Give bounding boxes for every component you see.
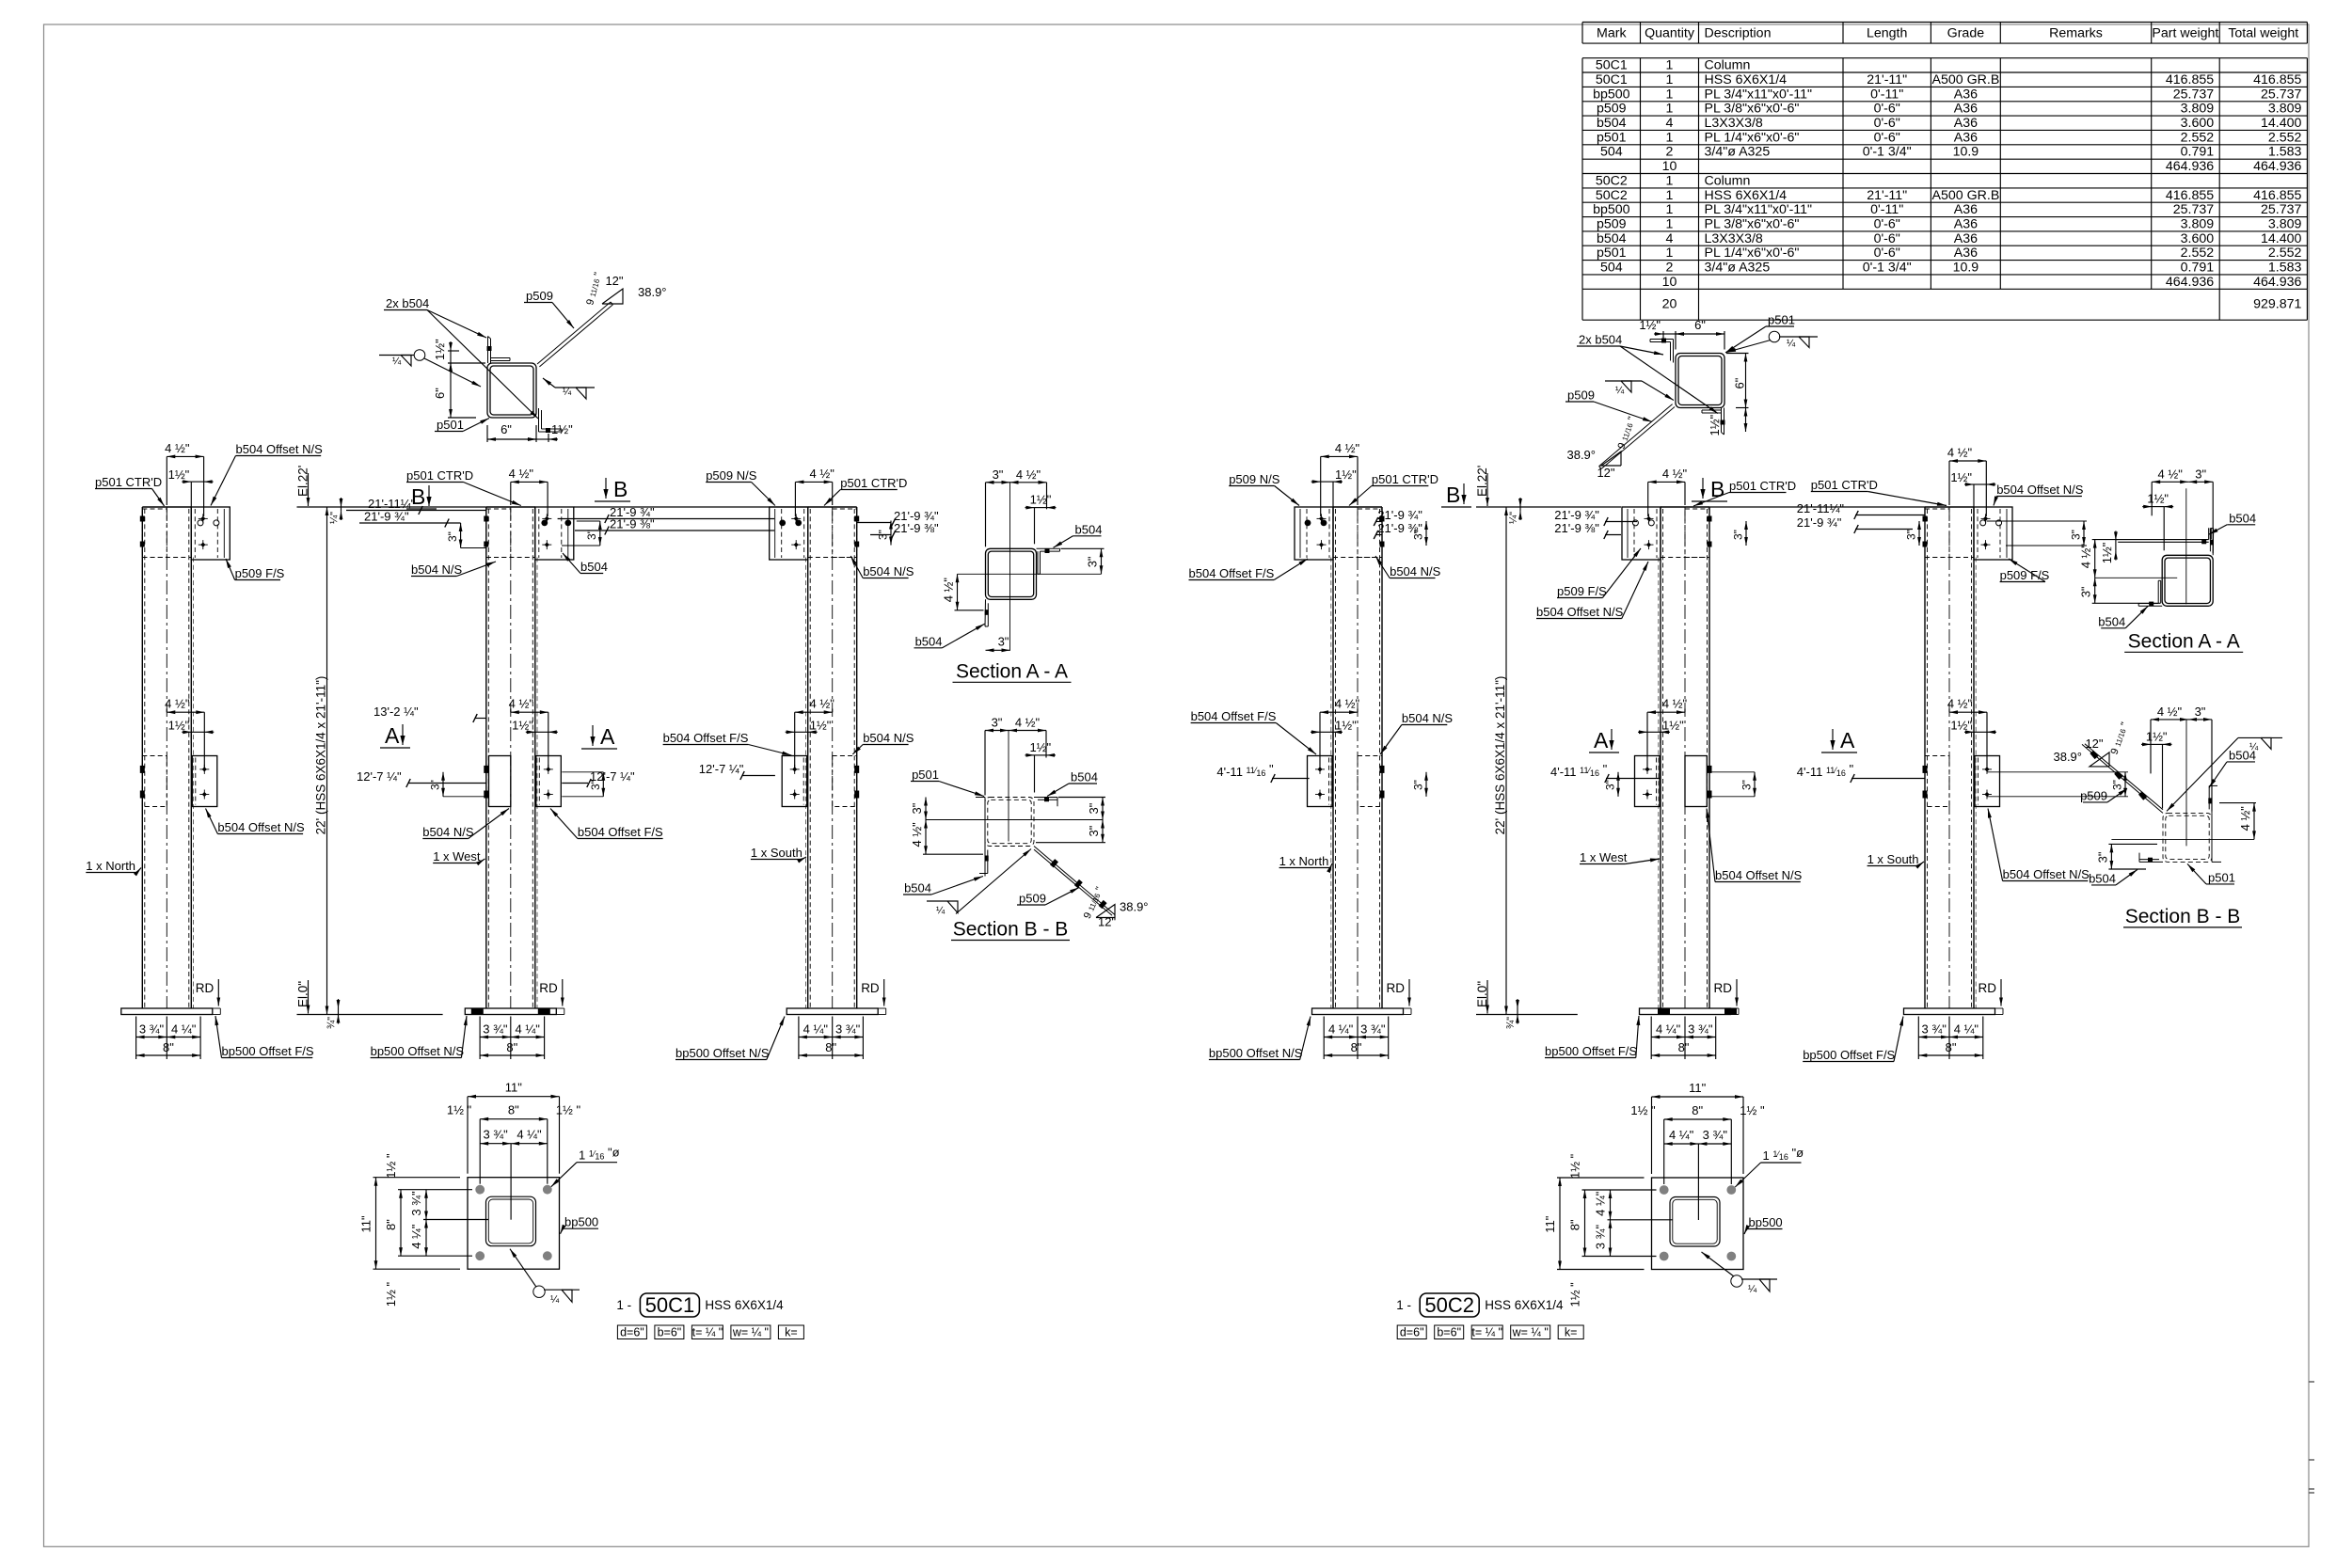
50C1 Section B-B - dims 3 inch right bbox=[1036, 798, 1105, 843]
column 50C2 north elevation - label b504 N/S bbox=[1375, 556, 1441, 578]
column 50C1 south elevation - mid dim 4 1/2 inch bbox=[795, 697, 835, 768]
svg-text:1½": 1½" bbox=[1639, 318, 1661, 332]
mid dim 3 inch (50C1 west right) bbox=[562, 772, 605, 797]
column 50C1 south elevation - bp500 base plate bbox=[787, 1008, 886, 1015]
svg-text:4 ½": 4 ½" bbox=[1947, 697, 1973, 711]
50C1 Section B-B - dims 3 and 4 1/2 inch top bbox=[985, 716, 1056, 796]
svg-text:A36: A36 bbox=[1954, 130, 1978, 145]
50C1 plan detail - dim 6 inch vertical bbox=[433, 339, 485, 418]
svg-text:¼": ¼" bbox=[1508, 512, 1519, 524]
svg-text:21'-11": 21'-11" bbox=[1867, 72, 1907, 87]
50C1 Section A-A - title bbox=[953, 660, 1072, 682]
column 50C2 west elevation - label 1 x West bbox=[1580, 850, 1660, 864]
50C1 bp500 plan - label 1 1/16 dia bolt hole bbox=[551, 1146, 620, 1187]
svg-text:p509: p509 bbox=[1567, 388, 1595, 403]
svg-text:8": 8" bbox=[1351, 1040, 1362, 1054]
50C1 Section B-B - HSS square (hidden behind p501) bbox=[985, 798, 1034, 847]
svg-text:A36: A36 bbox=[1954, 116, 1978, 131]
50C1 Section B-B - dim 4 1/2 inch left bbox=[925, 820, 927, 855]
50C1 Section A-A - dim 1 1/2 inch top bbox=[1035, 507, 1047, 509]
50C2 plan detail - slope triangle 38.9 deg bbox=[1566, 415, 1638, 480]
svg-text:3.600: 3.600 bbox=[2181, 116, 2215, 131]
svg-text:2: 2 bbox=[1666, 145, 1674, 160]
svg-text:RD: RD bbox=[1979, 981, 1997, 995]
svg-text:3 ¾": 3 ¾" bbox=[1594, 1225, 1608, 1250]
50C2 Section A-A - dim 3 inch side bbox=[2079, 578, 2161, 603]
section cut mark B-B right (50C1) bbox=[595, 477, 630, 501]
svg-text:¼: ¼ bbox=[550, 1294, 560, 1306]
svg-text:b504 Offset F/S: b504 Offset F/S bbox=[1189, 566, 1275, 580]
svg-text:Mark: Mark bbox=[1597, 26, 1627, 41]
svg-text:bp500: bp500 bbox=[564, 1215, 598, 1229]
50C1 Section B-B - label b504 bottom bbox=[903, 877, 983, 895]
50C1 Section B-B - title bbox=[951, 919, 1070, 941]
svg-text:21'-9 ¾": 21'-9 ¾" bbox=[364, 510, 409, 524]
svg-text:p509: p509 bbox=[526, 289, 553, 303]
50C2 Section B-B - label p501 bbox=[2187, 863, 2235, 884]
svg-text:A500 GR.B: A500 GR.B bbox=[1932, 72, 2000, 87]
svg-text:p509 F/S: p509 F/S bbox=[235, 566, 285, 580]
svg-text:b504: b504 bbox=[915, 634, 943, 648]
column 50C2 north elevation - label p501 CTR'D bbox=[1349, 472, 1438, 506]
50C2 plan detail - dim 6 inch horizontal bbox=[1639, 318, 1724, 350]
elevation dim 21'-9 3/8 inch (50C2 north right) bbox=[1374, 521, 1422, 539]
svg-text:p501 CTR'D: p501 CTR'D bbox=[1811, 478, 1878, 492]
svg-text:p501: p501 bbox=[912, 768, 939, 782]
50C2 bp500 plan - dim 11 inch top bbox=[1630, 1081, 1765, 1220]
svg-text:2.552: 2.552 bbox=[2268, 130, 2302, 145]
svg-text:464.936: 464.936 bbox=[2253, 275, 2301, 290]
svg-text:1½": 1½" bbox=[168, 718, 190, 732]
column 50C2 south elevation - mid dim 1 1/2 inch bbox=[1950, 718, 1996, 743]
elevation dim 21'-9 3/8 inch (50C1 south right) bbox=[870, 521, 939, 539]
column 50C2 west elevation - p501/p509/b504 top connection plate bbox=[1622, 507, 1712, 560]
svg-text:A36: A36 bbox=[1954, 231, 1978, 246]
50C2 plan detail - weld symbol 1/4 with circle (right) bbox=[1726, 331, 1818, 352]
svg-text:p501 CTR'D: p501 CTR'D bbox=[840, 476, 907, 490]
svg-text:4 ½": 4 ½" bbox=[1016, 467, 1041, 482]
column 50C2 west elevation - mid dim 4 1/2 inch bbox=[1647, 697, 1688, 768]
svg-text:3": 3" bbox=[1740, 780, 1754, 790]
svg-text:4 ½": 4 ½" bbox=[810, 697, 835, 711]
svg-text:3.809: 3.809 bbox=[2181, 217, 2215, 232]
svg-text:1.583: 1.583 bbox=[2268, 261, 2302, 276]
svg-text:b504: b504 bbox=[580, 560, 608, 574]
svg-text:p509: p509 bbox=[1597, 217, 1627, 232]
svg-text:464.936: 464.936 bbox=[2253, 159, 2301, 174]
svg-text:4 ½": 4 ½" bbox=[1662, 697, 1688, 711]
50C2 Section B-B - label b504 bottom bbox=[2089, 869, 2137, 885]
column 50C1 north elevation - mid dim 4 1/2 inch bbox=[165, 697, 204, 768]
bill of materials table bbox=[1582, 23, 2307, 321]
svg-text:b504 N/S: b504 N/S bbox=[863, 731, 914, 745]
svg-text:14.400: 14.400 bbox=[2261, 116, 2302, 131]
column 50C2 south elevation - label p501 CTR'D bbox=[1811, 478, 1947, 506]
svg-text:0'-6": 0'-6" bbox=[1874, 130, 1900, 145]
50C1 bp500 plan - dims 3 3/4 and 4 1/4 left bbox=[425, 1190, 427, 1220]
svg-text:RD: RD bbox=[1387, 981, 1406, 995]
column 50C1 south elevation - label b504 N/S bbox=[850, 556, 914, 578]
50C2 plan detail - angle b504 at corner (vertical leg) bbox=[1702, 408, 1725, 436]
svg-text:¾": ¾" bbox=[326, 1017, 338, 1029]
svg-text:11": 11" bbox=[1689, 1081, 1706, 1095]
column 50C1 west elevation - label b504 N/S bbox=[422, 809, 509, 840]
column 50C2 north elevation - bp500 base plate bbox=[1312, 1008, 1412, 1015]
50C2 Section B-B - label b504 top bbox=[2209, 748, 2256, 787]
column 50C2 west elevation - label p509 F/S bbox=[1557, 548, 1641, 598]
svg-text:3 ¾": 3 ¾" bbox=[483, 1022, 508, 1037]
50C1 bp500 plan - dim 11 inch top bbox=[447, 1081, 581, 1220]
svg-text:3": 3" bbox=[1087, 825, 1101, 836]
elevation dim 21'-9 3/8 inch (between 50C1 west-south) bbox=[575, 517, 774, 535]
column 50C2 west elevation - HSS 6X6X1/4 body bbox=[1659, 507, 1709, 1008]
svg-text:1: 1 bbox=[1666, 245, 1674, 261]
section cut mark A-A left (50C2) bbox=[1589, 728, 1619, 752]
50C2 Section A-A - HSS square bbox=[2162, 555, 2213, 606]
svg-text:10: 10 bbox=[1662, 159, 1677, 174]
svg-text:1½": 1½" bbox=[1950, 470, 1972, 484]
50C1 Section A-A - angle b504 top bbox=[1037, 548, 1060, 574]
50C1 Section B-B - label p501 bbox=[911, 768, 984, 797]
column 50C1 south elevation - label bp500 Offset N/S bbox=[675, 1017, 785, 1061]
mid elevation dim 13'-2 1/4 inch (50C1 west) bbox=[373, 705, 486, 722]
svg-text:b504 N/S: b504 N/S bbox=[1402, 711, 1454, 725]
50C2 bp500 plan - label 1 1/16 dia bolt hole bbox=[1735, 1146, 1804, 1187]
svg-text:4 ½": 4 ½" bbox=[1662, 467, 1688, 481]
svg-text:¼: ¼ bbox=[936, 906, 946, 917]
svg-text:1½": 1½" bbox=[1029, 740, 1051, 754]
column 50C1 north elevation - b504 mid connection plate bbox=[140, 756, 217, 807]
svg-text:1½": 1½" bbox=[1950, 718, 1972, 732]
svg-text:A: A bbox=[385, 723, 400, 748]
svg-text:4 ½": 4 ½" bbox=[810, 467, 835, 481]
svg-text:4 ½": 4 ½" bbox=[2079, 544, 2093, 569]
svg-text:b504: b504 bbox=[2089, 871, 2116, 885]
svg-text:4 ½": 4 ½" bbox=[509, 467, 534, 481]
50C1 plan detail - label p501 bbox=[435, 418, 489, 432]
svg-text:21'-9 ⅜": 21'-9 ⅜" bbox=[894, 521, 939, 535]
svg-text:3": 3" bbox=[2195, 705, 2206, 719]
svg-text:Section A - A: Section A - A bbox=[956, 660, 1068, 682]
svg-text:HSS 6X6X1/4: HSS 6X6X1/4 bbox=[1485, 1298, 1564, 1312]
column 50C2 south elevation - RD mark bbox=[1979, 979, 2003, 1006]
column 50C1 west elevation - label b504 N/S bbox=[411, 562, 496, 577]
section cut mark B-B right (50C2) bbox=[1692, 477, 1727, 501]
svg-text:t= ¼ ": t= ¼ " bbox=[692, 1326, 723, 1339]
svg-text:14.400: 14.400 bbox=[2261, 231, 2302, 246]
svg-text:25.737: 25.737 bbox=[2261, 202, 2302, 217]
50C2 Section A-A - angle b504 top bbox=[2138, 580, 2162, 606]
svg-text:50C1: 50C1 bbox=[1596, 58, 1628, 73]
svg-text:b504: b504 bbox=[1071, 770, 1098, 784]
svg-text:1: 1 bbox=[1666, 72, 1674, 87]
svg-text:b504 Offset N/S: b504 Offset N/S bbox=[1715, 868, 1803, 882]
column 50C2 north elevation - top dim 1 1/2 inch bbox=[1311, 467, 1357, 507]
svg-text:3": 3" bbox=[2111, 780, 2124, 790]
svg-text:3": 3" bbox=[877, 530, 890, 540]
50C1 Section B-B - label b504 top bbox=[1047, 770, 1098, 797]
column 50C1 north elevation - HSS 6X6X1/4 body bbox=[142, 507, 193, 1008]
svg-text:PL 3/4"x11"x0'-11": PL 3/4"x11"x0'-11" bbox=[1705, 87, 1813, 102]
svg-text:A36: A36 bbox=[1954, 245, 1978, 261]
50C1 plan detail - angle b504 at corner (vertical leg) bbox=[487, 337, 511, 364]
mid elevation dim 4'-11 11/16 inch (50C2 west) bbox=[1550, 762, 1661, 783]
column 50C2 south elevation - p501/p509/b504 top connection plate bbox=[1923, 507, 2013, 560]
50C1 bp500 plan - label bp500 bbox=[561, 1215, 599, 1234]
svg-text:1 -: 1 - bbox=[1396, 1298, 1411, 1312]
svg-text:25.737: 25.737 bbox=[2173, 87, 2215, 102]
svg-text:d=6": d=6" bbox=[620, 1326, 644, 1339]
svg-text:4'-11 11⁄16 ": 4'-11 11⁄16 " bbox=[1216, 762, 1274, 779]
svg-text:bp500 Offset F/S: bp500 Offset F/S bbox=[222, 1044, 314, 1058]
svg-text:RD: RD bbox=[1714, 981, 1733, 995]
svg-text:w= ¼ ": w= ¼ " bbox=[1512, 1326, 1549, 1339]
50C2 bp500 plan - anchor bolt holes bbox=[1660, 1185, 1736, 1260]
column 50C1 west elevation - b504 mid connection plate bbox=[484, 756, 561, 807]
mid dim 3 inch (50C2 west left) bbox=[1604, 772, 1620, 797]
svg-text:p509 F/S: p509 F/S bbox=[1557, 584, 1607, 598]
svg-text:bp500 Offset F/S: bp500 Offset F/S bbox=[1803, 1048, 1895, 1062]
section cut mark A-A right (50C1) bbox=[581, 724, 617, 749]
50C1 grid line El.22' bbox=[296, 466, 808, 507]
column 50C2 west elevation - label b504 Offset N/S bbox=[1706, 809, 1802, 883]
svg-text:3": 3" bbox=[1412, 530, 1425, 540]
svg-text:bp500 Offset N/S: bp500 Offset N/S bbox=[675, 1046, 770, 1060]
50C2 bp500 plan - weld symbol 1/4 below bbox=[1702, 1252, 1778, 1295]
svg-text:11": 11" bbox=[505, 1081, 522, 1095]
svg-text:b504 Offset N/S: b504 Offset N/S bbox=[1996, 483, 2084, 497]
svg-text:HSS 6X6X1/4: HSS 6X6X1/4 bbox=[1705, 72, 1788, 87]
column 50C1 west elevation - p501/p509/b504 top connection plate bbox=[484, 507, 574, 560]
mid dim 3 inch (50C2 south right) bbox=[1987, 772, 2128, 797]
svg-text:1½ ": 1½ " bbox=[384, 1282, 398, 1307]
svg-text:21'-11¼": 21'-11¼" bbox=[1797, 501, 1845, 515]
50C1 plan detail - slope triangle 38.9 deg bbox=[584, 271, 666, 307]
svg-text:2.552: 2.552 bbox=[2181, 130, 2215, 145]
column 50C2 south elevation - label bp500 Offset F/S bbox=[1803, 1017, 1903, 1063]
svg-text:3.809: 3.809 bbox=[2268, 102, 2302, 117]
svg-text:A: A bbox=[600, 724, 615, 749]
elevation dim 21'-9 3/4 inch (50C1 west) bbox=[359, 510, 461, 528]
column 50C2 south elevation - label p509 F/S bbox=[2000, 559, 2050, 582]
50C2 Section B-B - weld leader 1/4 bbox=[2167, 737, 2282, 811]
50C2 plan detail - dim 6 inch vertical bbox=[1708, 354, 1749, 436]
svg-text:464.936: 464.936 bbox=[2166, 159, 2214, 174]
50C1 bp500 plan - dim 8 inch left bbox=[400, 1190, 402, 1257]
50C1 Section A-A - label b504 (first) bbox=[1054, 522, 1103, 547]
svg-text:21'-9 ⅜": 21'-9 ⅜" bbox=[1554, 521, 1599, 535]
svg-text:1½": 1½" bbox=[1662, 718, 1684, 732]
svg-text:3 ¾": 3 ¾" bbox=[409, 1191, 423, 1216]
svg-text:4 ½": 4 ½" bbox=[910, 822, 924, 847]
50C2 plan detail - label p501 bbox=[1725, 313, 1795, 354]
svg-text:1½": 1½" bbox=[433, 339, 447, 360]
svg-text:3": 3" bbox=[446, 531, 459, 542]
svg-text:10.9: 10.9 bbox=[1953, 261, 1979, 276]
svg-text:1: 1 bbox=[1666, 173, 1674, 188]
svg-text:1½": 1½" bbox=[2147, 492, 2169, 506]
svg-text:416.855: 416.855 bbox=[2253, 188, 2301, 203]
svg-text:t= ¼ ": t= ¼ " bbox=[1471, 1326, 1502, 1339]
svg-text:3": 3" bbox=[2195, 467, 2206, 481]
column 50C1 south elevation - label p501 CTR'D bbox=[824, 476, 907, 506]
svg-text:3": 3" bbox=[1732, 530, 1745, 540]
mid elevation dim 4'-11 11/16 inch (50C2 south) bbox=[1797, 762, 1925, 783]
50C2 plan detail - angle b504 at opposite corner bbox=[1650, 339, 1674, 363]
svg-text:3": 3" bbox=[589, 780, 602, 790]
column 50C1 west elevation - RD mark bbox=[539, 979, 564, 1006]
mid elevation dim 4'-11 11/16 inch (50C2 north) bbox=[1216, 762, 1309, 783]
column 50C2 south elevation - mid dim 4 1/2 inch bbox=[1947, 697, 1987, 768]
svg-text:8": 8" bbox=[163, 1040, 174, 1054]
50C1 plan detail - angle b504 at opposite corner bbox=[539, 408, 563, 433]
svg-text:3": 3" bbox=[1905, 530, 1918, 540]
svg-text:1½": 1½" bbox=[168, 467, 190, 482]
svg-text:0'-6": 0'-6" bbox=[1874, 245, 1900, 261]
column 50C1 south elevation - label b504 N/S bbox=[852, 731, 914, 754]
svg-text:0'-1 3/4": 0'-1 3/4" bbox=[1863, 261, 1912, 276]
column 50C1 south elevation - label p509 N/S bbox=[706, 468, 775, 506]
svg-text:929.871: 929.871 bbox=[2253, 296, 2301, 311]
50C2 Section A-A - cut centerlines bbox=[2095, 488, 2186, 604]
svg-text:3": 3" bbox=[910, 802, 924, 814]
svg-text:A: A bbox=[1840, 728, 1855, 752]
svg-text:50C1: 50C1 bbox=[645, 1293, 695, 1317]
svg-text:PL 3/4"x11"x0'-11": PL 3/4"x11"x0'-11" bbox=[1705, 202, 1813, 217]
svg-text:8": 8" bbox=[1678, 1040, 1690, 1054]
50C1 plan detail - dim 6 inch horizontal bbox=[487, 422, 573, 442]
50C2 Section B-B - dims 3 and 4 1/2 inch top bbox=[2141, 705, 2212, 812]
column 50C2 west elevation - label b504 Offset N/S bbox=[1536, 562, 1648, 619]
50C2 Section B-B - HSS square (hidden behind p501) bbox=[2163, 813, 2212, 862]
50C1 Section A-A - dim 4 1/2 inch side bbox=[942, 574, 984, 610]
50C2 bp500 plan - dims 3 3/4 and 4 1/4 left bbox=[1610, 1190, 1612, 1220]
svg-text:1 x North: 1 x North bbox=[86, 859, 135, 873]
50C1 Section B-B - centerlines bbox=[926, 730, 1103, 842]
svg-text:p509 N/S: p509 N/S bbox=[1229, 472, 1280, 486]
50C2 grid line El.0" bbox=[1475, 980, 1578, 1015]
svg-text:1: 1 bbox=[1666, 217, 1674, 232]
50C2 Section B-B - slope triangle 38.9 deg bbox=[2053, 721, 2131, 767]
column 50C1 north elevation - top dim 4 1/2 inch bbox=[165, 441, 203, 516]
svg-text:4 ½": 4 ½" bbox=[509, 697, 534, 711]
50C2 Section B-B - dim 1 1/2 inch top bbox=[2151, 743, 2163, 745]
svg-text:k=: k= bbox=[785, 1326, 798, 1339]
svg-text:4 ¼": 4 ¼" bbox=[1328, 1022, 1354, 1037]
50C1 plan detail - HSS 6X6X1/4 section bbox=[487, 363, 536, 418]
svg-text:p509 N/S: p509 N/S bbox=[706, 468, 757, 483]
svg-text:bp500 Offset N/S: bp500 Offset N/S bbox=[1209, 1046, 1303, 1060]
svg-text:1½": 1½" bbox=[1708, 414, 1722, 436]
svg-text:B: B bbox=[613, 477, 628, 501]
svg-text:50C2: 50C2 bbox=[1596, 173, 1628, 188]
section cut mark B-B left (50C2) bbox=[1441, 483, 1471, 507]
svg-text:0'-6": 0'-6" bbox=[1874, 217, 1900, 232]
svg-text:3": 3" bbox=[998, 634, 1009, 648]
50C1 grid line El.0" bbox=[296, 980, 443, 1015]
svg-text:4: 4 bbox=[1666, 231, 1674, 246]
column 50C1 north elevation - label 1 x North bbox=[86, 859, 141, 876]
50C1 Section B-B - weld leader 1/4 bbox=[927, 849, 1031, 917]
svg-text:b504 Offset F/S: b504 Offset F/S bbox=[1191, 709, 1277, 723]
column 50C2 south elevation - top dim 1 1/2 inch bbox=[1950, 470, 1995, 507]
column 50C2 north elevation - mid dim 4 1/2 inch bbox=[1320, 697, 1360, 768]
svg-text:L3X3X3/8: L3X3X3/8 bbox=[1705, 116, 1763, 131]
svg-text:1½": 1½" bbox=[551, 422, 573, 436]
50C1 Section A-A - dims 3 inch and 4 1/2 inch top bbox=[986, 467, 1057, 547]
svg-text:4 ½": 4 ½" bbox=[1947, 446, 1973, 460]
svg-text:1½": 1½" bbox=[512, 718, 533, 732]
svg-text:50C2: 50C2 bbox=[1596, 188, 1628, 203]
column 50C1 west elevation - bp500 base plate bbox=[465, 1008, 564, 1016]
svg-text:bp500: bp500 bbox=[1749, 1215, 1783, 1229]
svg-text:22' (HSS 6X6X1/4 x 21'-11"): 22' (HSS 6X6X1/4 x 21'-11") bbox=[1493, 676, 1507, 835]
svg-text:6": 6" bbox=[1694, 318, 1706, 332]
column 50C1 west elevation - label b504 bbox=[563, 553, 608, 574]
svg-text:8": 8" bbox=[1692, 1103, 1703, 1117]
column 50C1 north elevation - label p501 CTR'D bbox=[95, 475, 165, 506]
svg-text:1½": 1½" bbox=[2146, 729, 2168, 743]
svg-text:PL 3/8"x6"x0'-6": PL 3/8"x6"x0'-6" bbox=[1705, 217, 1800, 232]
svg-text:Description: Description bbox=[1705, 26, 1772, 41]
50C1 bp500 plan - HSS column section bbox=[486, 1196, 536, 1246]
column 50C1 west elevation - mid dim 4 1/2 inch bbox=[509, 697, 548, 768]
svg-text:2x b504: 2x b504 bbox=[1579, 333, 1622, 347]
svg-text:A: A bbox=[1594, 728, 1609, 752]
svg-text:3.809: 3.809 bbox=[2268, 217, 2302, 232]
50C2 Section A-A - angle b504 bottom bbox=[2210, 529, 2214, 556]
50C1 Section A-A - HSS square bbox=[986, 548, 1037, 599]
svg-text:p501: p501 bbox=[1597, 245, 1627, 261]
mid dim 3 inch (50C1 west left) bbox=[429, 772, 486, 797]
svg-text:0.791: 0.791 bbox=[2181, 261, 2215, 276]
svg-text:1: 1 bbox=[1666, 130, 1674, 145]
50C1 Section B-B - slope triangle 38.9 deg bbox=[1082, 885, 1149, 928]
column 50C1 south elevation - mid dim 1 1/2 inch bbox=[786, 718, 832, 743]
svg-text:b504: b504 bbox=[1597, 116, 1627, 131]
svg-text:A36: A36 bbox=[1954, 102, 1978, 117]
svg-text:0'-11": 0'-11" bbox=[1870, 87, 1903, 102]
column 50C2 south elevation - b504 mid connection plate bbox=[1923, 756, 2000, 807]
svg-text:bp500 Offset F/S: bp500 Offset F/S bbox=[1545, 1044, 1637, 1058]
svg-text:w= ¼ ": w= ¼ " bbox=[732, 1326, 769, 1339]
svg-text:b504: b504 bbox=[2098, 614, 2125, 628]
top dim 3 inch (50C1 west right) bbox=[562, 521, 602, 546]
svg-text:1 x West: 1 x West bbox=[433, 849, 481, 863]
section cut mark B-B left (50C1) bbox=[406, 484, 437, 509]
svg-text:2x b504: 2x b504 bbox=[386, 296, 429, 310]
svg-text:3 ¾": 3 ¾" bbox=[1360, 1022, 1386, 1037]
50C2 Section B-B - title bbox=[2123, 906, 2242, 927]
svg-text:0'-1 3/4": 0'-1 3/4" bbox=[1863, 145, 1912, 160]
elevation dim 21'-9 3/4 inch (between 50C1 west-south) bbox=[558, 505, 775, 523]
50C1 Section A-A - cut centerlines bbox=[958, 482, 1102, 651]
svg-text:1½ ": 1½ " bbox=[384, 1153, 398, 1179]
svg-text:bp500 Offset N/S: bp500 Offset N/S bbox=[371, 1044, 465, 1058]
svg-text:b504 Offset N/S: b504 Offset N/S bbox=[1536, 605, 1624, 619]
svg-text:Column: Column bbox=[1705, 58, 1751, 73]
50C1 plan detail - dim 1 1/2 inch vertical bbox=[450, 351, 452, 363]
svg-text:b504: b504 bbox=[2229, 748, 2256, 762]
50C2 plan detail - label p509 bbox=[1565, 388, 1652, 422]
svg-text:B: B bbox=[1710, 477, 1724, 501]
50C2 bp500 plan - dim 8 inch left bbox=[1584, 1190, 1586, 1257]
top dim 3 inch (50C2 south right) bbox=[1987, 521, 2088, 546]
50C2 Section A-A - dim 1 1/2 inch side bbox=[2115, 540, 2117, 550]
svg-text:464.936: 464.936 bbox=[2166, 275, 2214, 290]
svg-text:4'-11 11⁄16 ": 4'-11 11⁄16 " bbox=[1797, 762, 1854, 779]
column 50C2 north elevation - p501/p509/b504 top connection plate bbox=[1295, 507, 1385, 560]
